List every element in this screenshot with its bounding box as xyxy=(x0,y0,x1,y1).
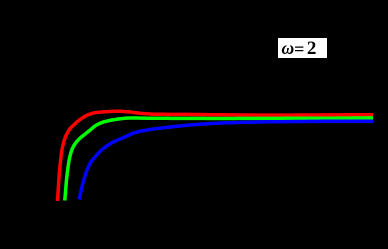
curve red (steepest, peaks then declines slightly) xyxy=(58,111,374,201)
label box omega = 2 xyxy=(278,38,327,58)
curve blue (shallowest, rises monotonically) xyxy=(79,121,373,199)
curve green (middle) xyxy=(65,118,373,201)
